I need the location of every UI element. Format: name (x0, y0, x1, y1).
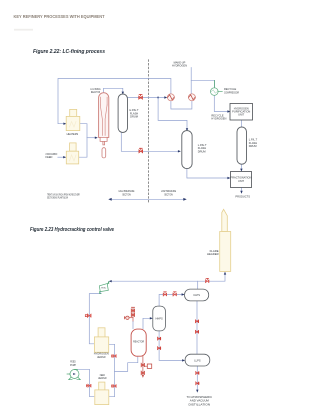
svg-text:DISTILLATION: DISTILLATION (189, 402, 211, 406)
svg-text:TO ATMOSPHERIC: TO ATMOSPHERIC (187, 395, 213, 399)
valve compressor discharge (85, 314, 91, 318)
wire heater1 outlet (79, 124, 87, 158)
node CLPS inlet arrow (182, 293, 185, 295)
wire compressor bypass U (171, 101, 192, 109)
LP hot flash drum (182, 131, 192, 169)
heater H2 body (66, 151, 78, 164)
wire HHPS gas to CLPS (159, 295, 183, 306)
wire junction to LP drum top (158, 98, 187, 131)
node HP drum top arrow (122, 92, 124, 95)
valve HHPS bottoms B (158, 347, 161, 350)
reactor internal funnel (100, 105, 107, 135)
reactor vessel (131, 329, 146, 356)
wire combined feed to reactor (115, 357, 138, 371)
wire HHPS liquid to LLPS (159, 331, 184, 360)
instrument box drain (147, 364, 151, 368)
valve CLPS bottoms B (195, 330, 198, 333)
valve flare header (206, 279, 209, 283)
node feed arrow (63, 156, 66, 158)
svg-text:REACTOR: REACTOR (91, 90, 100, 94)
LC-fining reactor shell (99, 93, 109, 138)
node right section arrowhead (183, 198, 186, 201)
wire CLPS liquid to LLPS (196, 301, 198, 354)
wire HP overhead to compressor (128, 97, 165, 99)
wire green riser to recycle compressor (213, 80, 215, 87)
wire purification to drum (240, 120, 242, 126)
svg-text:AND VACUUM: AND VACUUM (190, 399, 210, 403)
valve LLPS bottoms A (196, 371, 199, 374)
figure 2.22 caption (33, 49, 105, 55)
svg-text:DRUM: DRUM (249, 144, 257, 148)
svg-text:FEED: FEED (46, 155, 53, 159)
svg-text:SECTION: SECTION (122, 192, 131, 196)
wire H2 heater outlet (109, 344, 115, 371)
reactor drain line (142, 357, 144, 377)
LLPS vessel (185, 354, 210, 366)
wire products line (241, 188, 243, 193)
valve drain upper (141, 363, 144, 367)
valve H2 heater outlet (112, 354, 116, 357)
node LLPS inlet arrow (182, 359, 185, 361)
svg-text:DRUM: DRUM (198, 149, 206, 153)
wire reactor effluent to HHPS (143, 318, 152, 328)
node HHPS inlet arrow (150, 317, 153, 319)
node LP drum inlet arrow (178, 150, 181, 152)
node fractionation inlet arrow (227, 177, 230, 179)
wire heaters to reactor (87, 137, 97, 139)
node purification inlet arrow (227, 110, 230, 112)
hydrogen purification unit box (230, 104, 253, 121)
wire recycle compressor to purification (214, 95, 229, 111)
valve manifold top bar (131, 306, 134, 308)
node distillation arrow (196, 390, 198, 393)
svg-text:HYDROGEN: HYDROGEN (172, 64, 187, 68)
wire hydrocarbon feed (58, 156, 65, 158)
HP flash drum (118, 94, 127, 133)
hydrogen heater body (94, 337, 108, 352)
recycle compressor (211, 88, 223, 96)
svg-text:LLPS: LLPS (194, 358, 201, 362)
make-up compressor K1 (167, 94, 174, 101)
control valve HP overhead (139, 95, 143, 100)
svg-text:COMPRESSOR: COMPRESSOR (224, 90, 239, 94)
svg-text:HEATER: HEATER (97, 355, 106, 359)
wire manifold side branch (125, 317, 134, 319)
make-up compressor K2 (188, 94, 195, 101)
diagram 1 labels (46, 61, 258, 200)
wire recycle top line (58, 79, 171, 124)
svg-text:HEATERS: HEATERS (67, 132, 79, 136)
wire compressor inlet elbow (108, 282, 110, 284)
wire make-up branch to recycle compressor (191, 80, 214, 87)
flare stack tip (222, 209, 228, 231)
dashed section divider (147, 60, 149, 204)
node fractionation top arrow (240, 169, 242, 172)
valve pump discharge (87, 384, 91, 387)
valve feed heater outlet (112, 384, 116, 387)
recycle gas compressor (99, 281, 108, 293)
svg-text:PUMP: PUMP (70, 363, 76, 367)
diagram 2 labels (70, 249, 219, 407)
valve HHPS gas B (173, 292, 176, 296)
node heater1 inlet arrow (63, 123, 66, 125)
reactor bottom collar (100, 137, 107, 141)
node compressor inlet arrow (164, 96, 167, 98)
control valve HP bottoms (139, 148, 143, 153)
svg-text:HHPS: HHPS (155, 316, 162, 320)
node LP drum top arrow (186, 128, 188, 131)
section extent arrows (110, 198, 186, 200)
wire LP drum bottoms to fractionation (187, 169, 229, 179)
node manifold branch end (124, 317, 126, 319)
svg-text:KEY REFINERY PROCESSES WITH EQ: KEY REFINERY PROCESSES WITH EQUIPMENT (14, 14, 105, 20)
svg-text:Figure 2.23 Hydrocracking con: Figure 2.23 Hydrocracking control valve (30, 227, 114, 233)
valve HHPS gas A (163, 292, 166, 296)
node left section arrowhead (108, 198, 111, 201)
svg-text:REACTOR: REACTOR (133, 340, 144, 344)
node drain arrow (142, 375, 144, 378)
HHPS vessel (153, 306, 166, 331)
wire HP drum bottoms (121, 133, 179, 152)
svg-text:UNIT: UNIT (238, 179, 244, 183)
figure 2.23 caption (30, 227, 114, 233)
recycle gas drum (237, 127, 247, 164)
fractionation unit box (231, 172, 252, 188)
svg-text:RGC: RGC (101, 288, 106, 290)
node compressor suction arrow (109, 280, 112, 282)
hydrogen heater stack (98, 328, 105, 337)
feed pump (69, 369, 81, 379)
svg-text:HYDROGEN: HYDROGEN (211, 117, 226, 121)
node flare riser arrow (224, 272, 226, 275)
svg-text:SECTIONS/H2 PLANT BLOW: SECTIONS/H2 PLANT BLOW (47, 196, 68, 200)
node products arrow (240, 191, 242, 194)
valve manifold branch globe (126, 316, 129, 319)
wire reactor overhead (104, 88, 123, 93)
wire reactor top manifold line (132, 308, 134, 322)
wire make-up hydrogen line (190, 68, 192, 94)
wire compressor discharge to H2 heater (89, 292, 100, 344)
wire recycle gas main header (110, 273, 225, 281)
valve manifold upper (131, 309, 134, 313)
wire instrument connection (145, 365, 148, 367)
heater H1 stack (70, 109, 77, 116)
svg-text:Figure 2.22: LC-fining process: Figure 2.22: LC-fining process (33, 49, 105, 55)
wire CLPS overhead riser (197, 281, 199, 289)
valve HHPS bottoms A (158, 337, 161, 340)
node pump suction arrow (70, 373, 73, 375)
reactor bottom pot (102, 148, 106, 158)
heater H1 coil (70, 122, 77, 128)
svg-text:HEADER: HEADER (207, 252, 219, 256)
svg-text:DRUM: DRUM (130, 115, 138, 119)
reactor bottom neck (103, 141, 105, 145)
heater H2 coil (70, 155, 77, 161)
svg-text:SECTION: SECTION (164, 192, 173, 196)
reactor internals (100, 97, 107, 105)
node pump internal arrow (73, 373, 76, 375)
svg-text:PRODUCTS: PRODUCTS (235, 195, 250, 199)
page header (14, 14, 105, 31)
wire drum to fractionation (240, 164, 242, 170)
valve LLPS bottoms B (196, 382, 199, 385)
valve CLPS bottoms A (195, 320, 198, 323)
feed heater body (95, 390, 109, 405)
valve manifold lower (131, 313, 134, 317)
wire pump discharge (78, 369, 94, 396)
wire feed heater outlet (109, 371, 115, 396)
valve drain lower (141, 371, 144, 375)
wire pump suction (67, 373, 70, 375)
flare stack column (220, 232, 231, 272)
heater H1 body (66, 116, 80, 130)
node junction dot (157, 97, 159, 99)
node reactor inlet arrow (95, 137, 98, 139)
svg-text:HEATER: HEATER (98, 376, 107, 380)
feed heater stack (99, 382, 105, 390)
svg-text:UNIT: UNIT (238, 113, 244, 117)
wire LLPS bottoms (196, 366, 198, 391)
svg-text:CLPS: CLPS (193, 293, 200, 297)
CLPS vessel (185, 289, 209, 301)
heater H2 stack (70, 143, 77, 151)
